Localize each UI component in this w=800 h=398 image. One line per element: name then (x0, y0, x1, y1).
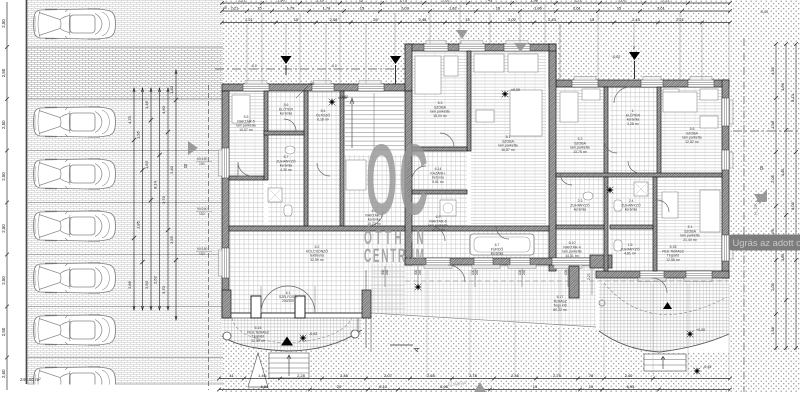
svg-text:240: 240 (522, 269, 526, 275)
partition szoba5.3/kazanh (412, 147, 467, 151)
wc 2 (614, 200, 622, 211)
outer wall top-middle section (405, 44, 556, 51)
room: FURDO floor (412, 231, 549, 258)
svg-text:15: 15 (294, 17, 299, 22)
svg-text:2,43: 2,43 (632, 17, 641, 22)
furniture: bed szoba 5.6 horizontal (663, 92, 697, 112)
svg-text:41: 41 (229, 373, 234, 378)
bottom dimension chains (219, 378, 730, 380)
partition zuhanyzo vertical (604, 177, 608, 271)
svg-text:1,40: 1,40 (258, 373, 267, 378)
svg-text:-3,02: -3,02 (340, 95, 348, 99)
svg-text:4,75: 4,75 (127, 115, 132, 124)
driveway aisle (denser paving) (27, 47, 223, 99)
washer kazanh (440, 200, 456, 216)
datum triangle 1 (281, 56, 292, 64)
door cells lower (317, 163, 330, 176)
svg-text:2,65: 2,65 (427, 373, 436, 378)
svg-text:2,21: 2,21 (676, 17, 685, 22)
interior bearing wall middle/right (549, 51, 556, 271)
door szoba lower right (657, 200, 669, 212)
partition raktar5/cells (264, 91, 268, 180)
survey triangle bottom (474, 382, 486, 392)
svg-text:15: 15 (533, 384, 538, 389)
entry steps bottom-left (269, 353, 309, 378)
outer wall left (222, 91, 229, 318)
partition cells (304, 91, 308, 226)
door szoba 5.3 (440, 133, 454, 147)
svg-text:-0,02: -0,02 (612, 55, 620, 59)
furniture: bed 2 lower right (662, 192, 678, 218)
partition zuhanyzo/szoba vertical (653, 177, 657, 271)
dash-dot boundary line right (743, 38, 745, 392)
door eloter cell (284, 119, 296, 131)
svg-text:2,02: 2,02 (618, 0, 627, 2)
svg-text:20: 20 (337, 384, 342, 389)
svg-text:240,50 m²: 240,50 m² (20, 377, 41, 382)
partition middle/furdo (412, 226, 549, 231)
car 3 (34, 159, 116, 189)
svg-text:15: 15 (496, 5, 501, 10)
wall step right of middle section (549, 44, 556, 87)
building footprint (white base) (222, 44, 729, 278)
room: SZOBA 5.6 floor (661, 87, 722, 173)
svg-text:2,21: 2,21 (238, 0, 247, 2)
dashed section line upper-right (733, 130, 800, 132)
svg-text:2,61: 2,61 (573, 5, 582, 10)
svg-text:1,98: 1,98 (530, 0, 539, 2)
section A marker (390, 344, 413, 346)
svg-text:2,48: 2,48 (419, 17, 428, 22)
parking spot divider lines (27, 46, 223, 48)
svg-text:8,0: 8,0 (332, 64, 337, 68)
partition zuhanyzo cells (556, 225, 604, 229)
car 2 (34, 107, 116, 137)
svg-text:CENTRUM: CENTRUM (364, 246, 426, 267)
chain row 3 (y=22.5) (222, 22, 730, 24)
svg-text:1,73: 1,73 (399, 0, 408, 2)
wall pier bottom-left inner (362, 290, 371, 318)
svg-text:2,50: 2,50 (1, 276, 6, 285)
stippled ground texture field (222, 0, 800, 392)
partition kazanh/raktar-6 (412, 190, 467, 194)
washbasin 1 (285, 146, 295, 154)
furniture: table (476, 110, 494, 122)
svg-text:2,02: 2,02 (508, 17, 517, 22)
car 4 (34, 211, 116, 241)
door kazanh (430, 226, 445, 241)
room: RAKTAR-5 floor (229, 91, 264, 176)
svg-text:2,28: 2,28 (297, 373, 306, 378)
wc 1 (284, 205, 292, 216)
svg-text:6,10: 6,10 (379, 384, 388, 389)
partition szoba5.2/eloter (604, 87, 608, 177)
svg-text:2,21: 2,21 (245, 17, 254, 22)
svg-text:15: 15 (590, 17, 595, 22)
svg-text:2,21: 2,21 (662, 0, 671, 2)
svg-text:2,48: 2,48 (330, 17, 339, 22)
svg-text:2,46: 2,46 (511, 373, 520, 378)
covered terrace bottom-left (curved) (222, 318, 362, 351)
paved parking strip (27, 0, 223, 384)
furniture: bed szoba 5.2 (560, 92, 578, 122)
door zuhanyzo right (628, 161, 640, 173)
svg-text:45: 45 (488, 0, 493, 2)
garden steps below right terrace (644, 354, 686, 371)
furniture: dresser (700, 116, 718, 128)
furniture: shelf raktar5 (232, 95, 250, 123)
svg-text:45: 45 (223, 6, 227, 10)
datum triangle 2 (390, 56, 401, 64)
terrace door right (652, 278, 667, 293)
svg-text:4,66: 4,66 (780, 82, 785, 91)
dashed arc right terrace (604, 283, 727, 315)
svg-text:15: 15 (359, 0, 364, 2)
interior bearing wall left/middle (405, 91, 412, 265)
svg-text:15: 15 (360, 5, 365, 10)
section marker B left (188, 141, 198, 155)
svg-text:1,85: 1,85 (136, 220, 141, 229)
door eloter-szoba (604, 140, 617, 153)
svg-text:2,02: 2,02 (442, 0, 451, 2)
svg-text:78: 78 (589, 373, 594, 378)
room: SZOBA 5.3 floor (412, 51, 467, 147)
room: ELOTER right floor (610, 87, 657, 173)
svg-text:2,62: 2,62 (153, 275, 158, 284)
svg-text:±0,00: ±0,00 (511, 88, 520, 92)
svg-text:2,50: 2,50 (144, 280, 149, 289)
wall pier between terraces (569, 266, 579, 298)
window sills bottom-middle (424, 265, 452, 269)
svg-text:2,40: 2,40 (625, 373, 634, 378)
svg-text:15: 15 (589, 384, 594, 389)
svg-text:K2: K2 (310, 82, 314, 86)
stairs treads (345, 93, 404, 151)
furniture: shelf raktar1 (346, 160, 366, 190)
svg-text:1,48: 1,48 (770, 326, 775, 335)
svg-text:2,78: 2,78 (469, 373, 478, 378)
svg-text:2,21: 2,21 (574, 0, 583, 2)
svg-text:-0,02: -0,02 (309, 332, 317, 336)
washbasin 2 (583, 192, 593, 200)
dashed section line upper-left (215, 68, 405, 70)
svg-text:2,50: 2,50 (1, 172, 6, 181)
furniture: bed szoba 5.1 (510, 90, 542, 136)
svg-text:240: 240 (385, 269, 389, 275)
outer wall top-right section (556, 80, 729, 87)
room: SZOBA 5.1 floor (471, 51, 546, 226)
room: ZUHANYZO cells right (556, 177, 604, 271)
furniture: closet szoba 5.2 (582, 89, 600, 100)
svg-text:2,50: 2,50 (1, 224, 6, 233)
furniture: wardrobe 2 (508, 54, 538, 72)
svg-text:2,07: 2,07 (384, 373, 393, 378)
up triangle terrace right (663, 302, 672, 309)
terrace columns circles (223, 332, 231, 340)
double entrance door kolcsonzo (261, 286, 315, 313)
svg-text:+0,00: +0,00 (696, 328, 705, 332)
room: KAZANH floor (412, 151, 467, 226)
svg-text:8,14: 8,14 (790, 93, 795, 102)
partition eloter/szoba5.6 (657, 87, 661, 177)
svg-text:H: H (530, 46, 533, 51)
dashed line across terrace (405, 280, 729, 282)
svg-text:15: 15 (465, 17, 470, 22)
room: RAKTAR-1 floor (344, 155, 405, 226)
outer wall bottom-right (596, 271, 729, 278)
svg-text:2,02: 2,02 (401, 5, 410, 10)
vertical dimension line cluster (133, 88, 135, 310)
car 5 (34, 263, 116, 293)
column 2 (295, 296, 305, 318)
partition eloter/zuhanyzo (264, 131, 304, 135)
svg-text:4,66: 4,66 (780, 253, 785, 262)
svg-text:60/180: 60/180 (197, 247, 207, 251)
vertical dim 4,66 (365, 270, 367, 348)
door raktar-5 (238, 162, 252, 176)
svg-text:2,86: 2,86 (127, 280, 132, 289)
car 7 (34, 367, 116, 397)
wall step left of middle section (405, 44, 412, 91)
svg-text:1,95: 1,95 (136, 130, 141, 139)
left margin dimension chain (6, 2, 8, 390)
middle terrace (371, 264, 596, 327)
wall corner block SE of middle section (590, 255, 612, 268)
svg-text:240: 240 (475, 269, 479, 275)
dashed arc inside terrace (232, 318, 352, 343)
partition right section horizontal (556, 173, 722, 177)
right covered terrace (599, 278, 729, 352)
svg-text:2,05: 2,05 (770, 174, 775, 183)
room: SZOBA 5.2 floor (556, 87, 604, 173)
gray datum triangle top 2 (514, 43, 527, 52)
partition cells/stair (340, 91, 344, 226)
svg-text:3,70: 3,70 (161, 195, 166, 204)
entrance door right section (614, 87, 630, 103)
up triangle terrace left (281, 337, 293, 346)
svg-text:2,50: 2,50 (1, 327, 6, 336)
svg-text:150: 150 (199, 252, 205, 256)
door raktar-1 (368, 211, 383, 226)
svg-text:3,55: 3,55 (169, 235, 174, 244)
partition szoba5.3/5.1 (467, 51, 471, 151)
svg-text:4,45: 4,45 (780, 168, 785, 177)
OC Otthon Centrum watermark (364, 125, 430, 267)
outer wall right (722, 80, 729, 278)
furniture: closet szoba 5.6l (663, 89, 679, 100)
svg-text:2,43: 2,43 (548, 17, 557, 22)
outer wall top-left section (222, 84, 408, 91)
svg-text:-0,02: -0,02 (760, 10, 768, 14)
partition above kolcsonzo (229, 226, 405, 231)
svg-text:2,05: 2,05 (770, 282, 775, 291)
outer wall bottom-middle (405, 258, 592, 265)
svg-text:90/240: 90/240 (197, 207, 207, 211)
svg-text:240: 240 (418, 269, 422, 275)
svg-text:-0,45: -0,45 (703, 365, 711, 369)
wall pier bottom-left end (222, 290, 231, 318)
gray datum triangle top (456, 30, 468, 39)
car 6 (34, 315, 116, 345)
room: stair hall (344, 91, 405, 151)
room: SZOBA 21,40 floor (657, 177, 722, 271)
window sill nubs protruding outside walls (245, 81, 267, 85)
partition raktar5 bottom (229, 176, 264, 180)
gray triangle right band (754, 194, 766, 204)
svg-text:1,62: 1,62 (449, 5, 458, 10)
car 1 (34, 9, 116, 39)
svg-text:6,86: 6,86 (261, 384, 270, 389)
furniture: closet szoba 5.6r (700, 89, 718, 100)
svg-text:1,73: 1,73 (323, 5, 332, 10)
door kazanh side (412, 166, 426, 180)
svg-text:4,60: 4,60 (161, 105, 166, 114)
colonnade beam (231, 312, 362, 314)
column 1 (251, 296, 261, 318)
svg-text:2,61: 2,61 (657, 5, 666, 10)
svg-text:150: 150 (199, 162, 205, 166)
dashed setback line (208, 85, 210, 390)
bathtub (470, 234, 534, 255)
svg-text:2,40: 2,40 (169, 165, 174, 174)
svg-text:1,46: 1,46 (144, 100, 149, 109)
site bottom boundary (27, 383, 223, 385)
svg-text:8,05: 8,05 (790, 201, 795, 210)
svg-text:4,45: 4,45 (770, 66, 775, 75)
witness lines from chains to building (246, 24, 248, 84)
svg-text:15: 15 (617, 5, 622, 10)
shower 2 (634, 182, 648, 196)
svg-text:1,98: 1,98 (770, 120, 775, 129)
chain row 2 (y=11) (222, 10, 730, 12)
partition zuhanyzo cells 2 (610, 225, 653, 229)
furniture: bed szoba lower right (700, 190, 720, 232)
room: small cells tile floors (268, 91, 304, 226)
svg-text:2,78: 2,78 (553, 373, 562, 378)
UI button: Ugras az adott oldalra (729, 235, 800, 251)
svg-text:2,50: 2,50 (1, 19, 6, 28)
shower 1 (268, 188, 282, 202)
svg-text:1,90: 1,90 (277, 0, 286, 2)
svg-text:150: 150 (199, 212, 205, 216)
furniture: wardrobe szoba 5.1 (474, 54, 504, 72)
wc 3 (614, 240, 622, 251)
svg-text:15: 15 (257, 5, 262, 10)
furniture: bed szoba 5.3 (415, 56, 441, 94)
svg-text:1,79: 1,79 (316, 0, 325, 2)
witness lines to bottom chains (426, 270, 428, 376)
svg-text:1,06: 1,06 (534, 5, 543, 10)
right vertical chains (775, 44, 777, 350)
svg-text:3,70: 3,70 (161, 285, 166, 294)
svg-text:2,60: 2,60 (1, 369, 6, 378)
terrace door middle (448, 265, 465, 282)
svg-text:8,14: 8,14 (153, 180, 158, 189)
svg-text:1,79: 1,79 (287, 5, 296, 10)
svg-text:2,50: 2,50 (1, 68, 6, 77)
svg-text:1,40: 1,40 (169, 85, 174, 94)
stair direction line (350, 98, 354, 148)
svg-text:8,0: 8,0 (252, 64, 257, 68)
dashed vertical at x560 top (559, 25, 561, 80)
svg-text:6,95: 6,95 (627, 384, 636, 389)
svg-text:Ugrás az adott olda: Ugrás az adott olda (733, 237, 800, 248)
svg-text:2,21: 2,21 (231, 5, 240, 10)
svg-text:1,63: 1,63 (144, 160, 149, 169)
door furdo (496, 226, 509, 239)
furniture: nightstand (444, 56, 458, 76)
svg-text:2,20: 2,20 (587, 273, 591, 280)
svg-text:2,46: 2,46 (340, 373, 349, 378)
svg-text:H_DK: H_DK (753, 203, 758, 215)
datum triangle 3 (629, 52, 640, 60)
svg-text:25: 25 (373, 17, 378, 22)
access ramp triangle (248, 353, 268, 387)
parking boundary line left (26, 0, 28, 384)
svg-text:2,50: 2,50 (1, 120, 6, 129)
svg-text:OC: OC (366, 125, 430, 237)
small circle column terrace edge (599, 300, 605, 306)
level markers (4-point stars) (328, 98, 336, 106)
chain row 1 (y=3) (222, 2, 730, 4)
room: KOLCSONZO floor (229, 231, 405, 313)
svg-text:60/180: 60/180 (197, 157, 207, 161)
door zuhanyzo left (560, 173, 572, 185)
